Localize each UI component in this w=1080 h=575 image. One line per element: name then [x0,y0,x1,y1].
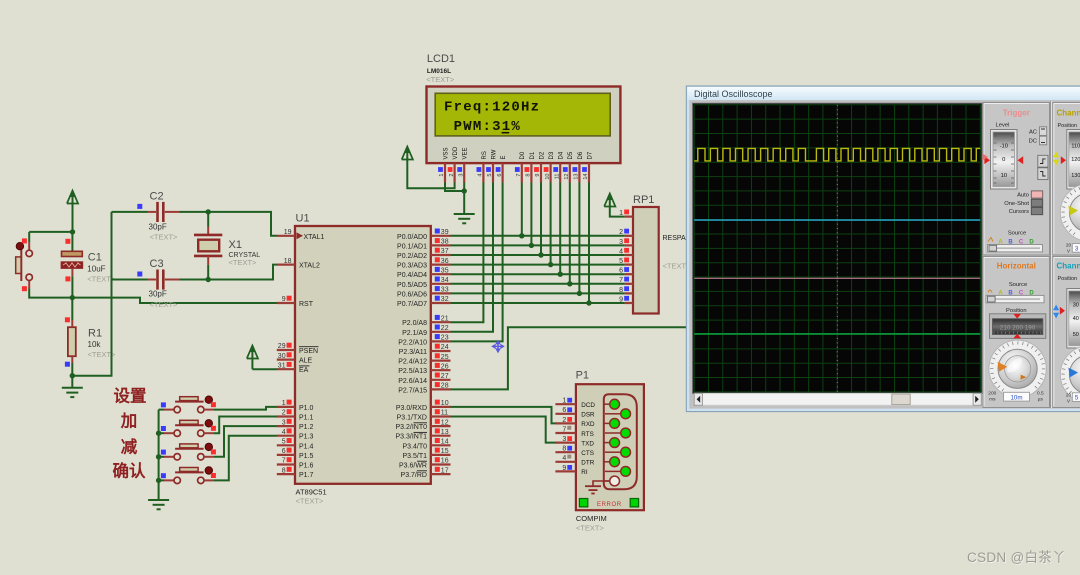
svg-text:19: 19 [284,229,292,236]
pin 12 D5 LCD1 [563,151,574,182]
wire C3 to crystal bottom rail [180,279,209,281]
AC DC buttons [1040,127,1047,136]
push-button reset (vertical) [16,238,33,291]
pin 9 D2 LCD1 [534,151,545,182]
svg-text:29: 29 [278,343,286,350]
wire LCD E to P2.2 [451,183,503,342]
pin 6 RP1 [619,267,633,275]
P1 status LED right [630,499,638,507]
svg-text:7: 7 [516,174,522,177]
svg-text:3: 3 [619,239,623,246]
junction VSS/VEE [462,188,467,193]
svg-text:4: 4 [478,174,484,177]
svg-text:P1.0: P1.0 [299,405,314,412]
pin 4 DTR P1 [555,455,594,467]
oscilloscope channel B trace (cyan) [694,219,980,221]
wire crystal bottom to XTAL2 [208,265,277,280]
pin 29 PSEN U1 [277,343,319,355]
horizontal position display [990,314,1046,339]
P1 D-sub pin circle L1 [605,403,610,405]
pin 25 P2.4/A12 U1 [398,353,450,365]
horizontal timebase knob [998,349,1037,388]
pin 4 P1.3 U1 [277,428,314,440]
pin 28 P2.7/A15 U1 [398,382,450,394]
horizontal source letters ABCD [988,290,1034,297]
svg-text:EA: EA [299,367,309,374]
svg-text:C1: C1 [88,251,102,263]
channel B value box [1072,393,1080,402]
svg-text:Chann: Chann [1057,109,1080,118]
P1 status LED left [579,499,587,507]
pin 9 RST U1 [277,296,314,308]
wire LCD VSS to ground [445,183,464,192]
svg-text:8: 8 [282,467,286,474]
pin 33 P0.6/AD6 U1 [397,286,450,298]
push-button plus [161,420,216,437]
svg-text:RI: RI [581,469,588,476]
svg-text:DC: DC [1029,138,1037,144]
wire LCD RS to P2.0 [451,183,484,323]
svg-text:AC: AC [1029,129,1037,135]
channel A position slider [1067,130,1080,190]
push-button minus [161,443,216,460]
pin 3 TXD P1 [555,436,594,447]
svg-text:30pF: 30pF [149,289,167,298]
pin 32 P0.7/AD7 U1 [397,296,450,308]
svg-text:RST: RST [299,301,314,308]
svg-text:3: 3 [1075,246,1079,253]
svg-text:20: 20 [1066,242,1072,248]
pin 6 DSR P1 [555,407,595,418]
svg-text:CTS: CTS [581,450,594,457]
svg-text:1: 1 [562,398,566,405]
svg-text:3: 3 [562,436,566,443]
P1 D-sub pin circle R2 [605,432,621,434]
svg-text:P1.6: P1.6 [299,463,314,470]
svg-text:30: 30 [1073,302,1079,308]
svg-text:设置: 设置 [114,387,147,406]
svg-text:4: 4 [562,455,566,462]
junction bus button4 [156,478,161,483]
svg-text:-10: -10 [1000,143,1008,149]
button One-Shot [1031,199,1042,206]
svg-text:AT89C51: AT89C51 [296,488,327,497]
svg-text:D5: D5 [568,151,574,159]
svg-text:37: 37 [441,248,449,255]
svg-text:30: 30 [278,353,286,360]
svg-text:110: 110 [1071,143,1080,149]
trigger source slider [988,245,1043,252]
wire P0.4 chip to RP1 pin 6 [451,273,625,275]
pin 2 P1.1 U1 [277,409,314,421]
channel A knob dial (clipped) [1060,184,1080,241]
svg-text:11: 11 [554,174,560,180]
wire P0.5 chip to RP1 pin 7 [451,283,625,285]
wire button left terminal to bus [159,456,164,458]
pin 8 D1 LCD1 [525,151,536,182]
svg-text:36: 36 [441,258,449,265]
svg-text:PSEN: PSEN [299,348,318,355]
pin 24 P2.3/A11 U1 [399,344,451,356]
channel A position arrows [1053,152,1059,158]
junction VCC rail / C1 top [70,229,75,234]
svg-text:5: 5 [487,174,493,177]
LCD LM016L body [427,87,621,164]
pin 7 D0 LCD1 [515,151,526,182]
wire LCD D1 to P0.1 bus [530,183,532,246]
chip U1 AT89C51 body [295,226,431,484]
push-button confirm [161,467,216,484]
junction bus button2 [156,431,161,436]
wire RST node to chip RST pin [72,298,277,303]
svg-text:RXD: RXD [581,421,595,428]
svg-text:D1: D1 [530,151,536,159]
svg-text:P1.4: P1.4 [299,443,314,450]
pin 5 RP1 [619,258,633,266]
wire crystal caps ground leg [72,280,111,376]
svg-text:VSS: VSS [443,147,449,159]
svg-text:10k: 10k [88,340,102,349]
svg-text:U1: U1 [296,213,310,225]
channel A section box [1053,103,1080,256]
svg-text:P0.6/AD6: P0.6/AD6 [397,291,427,298]
svg-text:P2.7/A15: P2.7/A15 [398,387,427,394]
button Auto [1031,191,1042,198]
wire LCD D2 to P0.2 bus [540,183,542,256]
capacitor C1 10uF (electrolytic) [61,232,82,298]
pin 23 P2.2/A10 U1 [398,334,450,346]
P1 D-sub pin circle R4 [605,470,621,472]
power VCC arrow (reset circuit) [72,197,74,232]
svg-text:确认: 确认 [113,461,147,481]
pin 26 P2.5/A13 U1 [398,363,450,375]
junction D7/P0.7 [586,300,591,305]
wire button left terminal to bus [159,409,164,411]
svg-text:D4: D4 [559,151,565,159]
junction D3/P0.3 [548,262,553,267]
cursor marker (blue cross) [491,340,505,354]
P1 D-sub pin circle L4 [605,461,610,463]
svg-text:VDD: VDD [453,146,459,159]
svg-text:COMPIM: COMPIM [576,514,607,523]
svg-text:8: 8 [526,174,532,177]
svg-text:P1.1: P1.1 [299,415,314,422]
svg-text:P3.2/INT0: P3.2/INT0 [395,424,427,431]
channel B knob blue pointer [1068,368,1078,378]
svg-text:Position: Position [1058,276,1078,282]
oscilloscope graticule grid [694,105,980,392]
pin 2 RXD P1 [555,417,595,428]
svg-text:ERROR: ERROR [597,502,622,508]
svg-text:E: E [501,155,507,159]
pin 9 RP1 [619,296,633,304]
channel B position arrows [1053,305,1059,311]
trigger screen edge marker [983,154,989,161]
LCD cursor underline [502,132,510,134]
svg-text:2: 2 [619,229,623,236]
pin 12 P3.2/INT0 U1 [395,419,450,431]
resistor R1 10k [65,298,76,388]
pin 10 D3 LCD1 [544,151,555,182]
svg-text:10m: 10m [1010,394,1022,401]
svg-text:<TEXT>: <TEXT> [150,233,179,242]
svg-text:33: 33 [441,287,449,294]
oscilloscope horizontal scrollbar [694,393,981,405]
svg-text:D3: D3 [549,151,555,159]
svg-text:0: 0 [1002,157,1005,163]
svg-text:Position: Position [1058,123,1078,129]
svg-text:P1.5: P1.5 [299,453,314,460]
pin 17 P3.7/RD U1 [401,467,451,479]
pin 1 VSS LCD1 [438,147,449,182]
svg-text:0.5: 0.5 [1037,390,1044,396]
svg-text:Horizontal: Horizontal [997,261,1036,270]
pin 27 P2.6/A14 U1 [398,373,450,385]
P1 D-sub pin circle R3 [605,451,621,453]
svg-text:PWM:31%: PWM:31% [454,119,521,135]
svg-text:210 200 190: 210 200 190 [1000,326,1036,332]
svg-text:3: 3 [458,174,464,177]
wire reset button top to VCC rail [28,232,30,242]
pin 7 RTS P1 [555,426,593,438]
svg-text:ms: ms [989,397,996,402]
scrollbar right button [973,393,981,405]
horizontal knob orange pointer [998,362,1008,372]
svg-text:12: 12 [564,174,570,180]
ground symbol below R1 [62,387,83,389]
junction D6/P0.6 [577,291,582,296]
pin 22 P2.1/A9 U1 [402,325,450,337]
svg-text:<TEXT>: <TEXT> [426,75,455,84]
svg-text:P3.6/WR: P3.6/WR [399,463,427,470]
svg-text:28: 28 [441,383,449,390]
svg-text:Freq:120Hz: Freq:120Hz [444,99,540,115]
svg-text:DSR: DSR [581,412,595,419]
pin 7 P1.6 U1 [277,457,314,469]
pin 4 RP1 [619,248,633,256]
wire P0.1 chip to RP1 pin 3 [451,244,625,246]
pin 38 P0.1/AD1 U1 [397,238,450,250]
svg-text:31: 31 [278,362,286,369]
junction RST node (C1/R1/button/RST) [70,295,75,300]
connector P1 COMPIM body [576,384,644,510]
wire LCD D6 to P0.6 bus [578,183,580,294]
pin 3 P1.2 U1 [277,419,314,431]
svg-text:P2.3/A11: P2.3/A11 [399,349,427,356]
svg-text:加: 加 [120,412,138,431]
wire P0.2 chip to RP1 pin 4 [451,254,625,256]
power arrow RP1 [609,200,611,209]
svg-text:50: 50 [1073,332,1079,338]
pin 37 P0.2/AD2 U1 [397,248,450,260]
wire button left terminal to bus [159,479,164,481]
svg-text:R1: R1 [88,327,102,339]
wire LCD VDD to power [407,160,454,189]
svg-text:CSDN @白茶丫: CSDN @白茶丫 [967,550,1066,565]
capacitor C3 30pF [112,270,180,290]
svg-text:21: 21 [441,315,449,322]
svg-text:26: 26 [441,363,449,370]
wire button left terminal to bus [159,432,164,434]
svg-text:6: 6 [619,268,623,275]
svg-text:10: 10 [1001,173,1007,179]
power arrow LCD VDD [406,153,408,160]
svg-text:2: 2 [282,410,286,417]
svg-text:7: 7 [282,458,286,465]
svg-text:35: 35 [441,267,449,274]
junction D0/P0.0 [519,233,524,238]
svg-text:P3.3/INT1: P3.3/INT1 [395,434,427,441]
pin 13 D6 LCD1 [573,151,584,182]
wire button plus to P1.1 [214,417,277,434]
svg-text:6: 6 [282,448,286,455]
svg-text:µs: µs [1038,397,1044,402]
wire LCD D4 to P0.4 bus [559,183,561,275]
pin 2 VDD LCD1 [448,146,459,182]
svg-text:8: 8 [562,446,566,453]
wire button confirm to P1.3 [214,436,277,481]
oscilloscope channel C trace (pink) [694,277,980,279]
svg-text:X1: X1 [229,239,242,251]
junction bus button3 [156,454,161,459]
pin 10 P3.0/RXD U1 [396,400,451,412]
svg-text:D0: D0 [520,151,526,159]
wire P3.0/RXD to P1 RXD [451,407,557,424]
wire C2 to crystal top rail [180,211,209,213]
pin 1 DCD P1 [555,398,595,409]
wire reset button bottom to RST node [29,288,72,297]
svg-text:D2: D2 [539,151,545,159]
svg-text:P0.0/AD0: P0.0/AD0 [397,234,427,241]
wire RP1 pin1 to power [610,209,625,217]
svg-text:P2.2/A10: P2.2/A10 [398,339,427,346]
power arrow EA pin [251,352,253,370]
junction crystal top / C2 [206,209,211,214]
P1 D-sub pin circle L3 [605,442,610,444]
scrollbar thumb [892,394,910,405]
ground symbol LCD [454,213,475,215]
trigger source letters ABCD [988,238,1034,246]
svg-text:P2.6/A14: P2.6/A14 [398,378,427,385]
svg-text:P3.0/RXD: P3.0/RXD [396,405,427,412]
svg-text:XTAL1: XTAL1 [304,234,325,241]
svg-text:6: 6 [562,407,566,414]
svg-text:30pF: 30pF [149,222,167,231]
svg-text:P2.5/A13: P2.5/A13 [398,368,427,375]
svg-text:38: 38 [441,239,449,246]
button Cursors [1031,208,1042,215]
trigger level slider [991,130,1018,190]
svg-text:18: 18 [284,258,292,265]
pin 11 P3.1/TXD U1 [397,409,451,421]
pin 19 XTAL1 U1 [277,229,325,241]
svg-text:6: 6 [497,174,503,177]
svg-text:P0.5/AD5: P0.5/AD5 [397,282,427,289]
pin 3 RP1 [619,238,633,246]
wire P0.7 chip to RP1 pin 9 [451,302,625,304]
pin 11 D4 LCD1 [553,151,564,182]
wire button minus to P1.2 [214,426,277,457]
oscilloscope inner panel [689,100,1080,409]
pin 35 P0.4/AD4 U1 [397,267,450,279]
svg-text:P2.4/A12: P2.4/A12 [398,359,427,366]
pin 9 RI P1 [555,465,587,476]
pin 2 RP1 [619,229,633,237]
horizontal section box [983,257,1050,408]
svg-text:P0.4/AD4: P0.4/AD4 [397,272,427,279]
svg-text:Level: Level [996,123,1010,129]
svg-text:22: 22 [441,325,449,332]
pin 34 P0.5/AD5 U1 [397,277,450,289]
svg-text:25: 25 [441,354,449,361]
junction R1 bottom / crystal-cap ground leg [70,373,75,378]
wire buttons ground bus [158,410,160,500]
svg-text:RS: RS [482,151,488,159]
svg-text:11: 11 [441,410,448,417]
svg-text:<TEXT>: <TEXT> [229,258,258,267]
svg-text:Cursors: Cursors [1009,209,1029,215]
P1 internal ground [585,481,610,494]
svg-text:C2: C2 [150,191,164,203]
svg-text:4: 4 [282,429,286,436]
svg-text:27: 27 [441,373,449,380]
wire power to EA [252,368,277,370]
trigger level red arrows [984,156,990,164]
svg-text:2: 2 [449,174,455,177]
push-button set [161,396,216,413]
pin 4 RS LCD1 [477,151,488,182]
svg-text:Chann: Chann [1057,261,1080,270]
pin 8 P1.7 U1 [277,467,314,479]
channel B knob dial (clipped) [1060,346,1080,403]
channel B position slider [1067,289,1080,349]
svg-text:1: 1 [282,400,286,407]
svg-text:9: 9 [619,296,623,303]
svg-text:P2.1/A9: P2.1/A9 [402,330,427,337]
svg-text:13: 13 [441,429,449,436]
svg-text:7: 7 [562,426,566,433]
svg-text:Source: Source [1009,282,1027,288]
svg-text:8: 8 [619,287,623,294]
pin 31 EA U1 [277,362,310,374]
oscilloscope window frame [686,86,1080,412]
svg-text:P3.5/T1: P3.5/T1 [402,453,427,460]
channel A value box [1072,244,1080,253]
svg-text:40: 40 [1073,316,1079,322]
svg-text:LCD1: LCD1 [427,53,455,65]
svg-text:5: 5 [619,258,623,265]
svg-text:P0.3/AD3: P0.3/AD3 [397,263,427,270]
svg-text:RP1: RP1 [633,194,654,206]
wire VCC rail to C1 and reset button [29,231,72,233]
wire P0.3 chip to RP1 pin 5 [451,264,625,266]
oscilloscope channel D trace (green) [694,333,980,335]
svg-text:16: 16 [441,458,449,465]
P1 D-sub pin circle L5 [605,480,610,482]
wire P0.6 chip to RP1 pin 8 [451,292,625,294]
svg-text:10: 10 [441,400,449,407]
crystal X1 [194,212,222,280]
pin 1 RP1 [619,210,633,218]
svg-text:<TEXT>: <TEXT> [576,524,605,533]
wire LCD D0 to P0.0 bus [521,183,523,236]
panel divider [1050,101,1052,408]
svg-text:20: 20 [1066,392,1072,398]
oscilloscope title bar [687,87,1080,100]
svg-text:P3.4/T0: P3.4/T0 [402,443,427,450]
ground symbol buttons [148,499,169,501]
pin 7 RP1 [619,277,633,285]
